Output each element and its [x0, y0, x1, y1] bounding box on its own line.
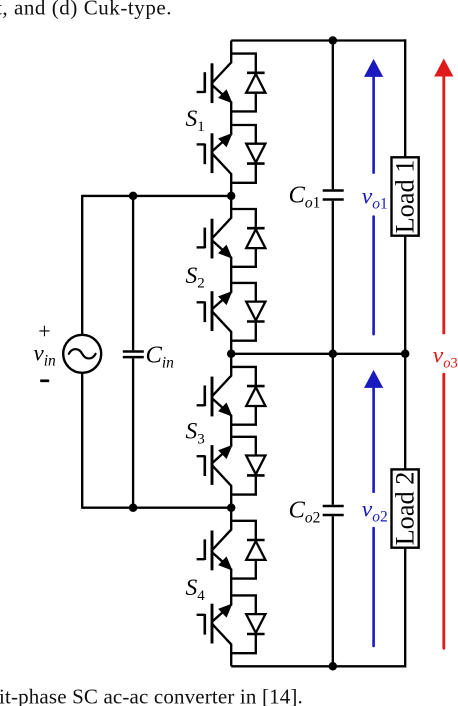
transistor S4 upper IGBT: [197, 508, 232, 571]
wire load2 top lead: [404, 354, 406, 470]
arrow vo2 shaft lower: [372, 528, 375, 646]
wire Cin top lead: [132, 196, 134, 350]
junction node 4: [227, 350, 236, 359]
wire S2 mid link: [230, 257, 232, 293]
ac source vin circle: [63, 335, 101, 373]
svg-text:vo3: vo3: [433, 343, 458, 372]
wire load2 bottom lead: [404, 548, 406, 668]
wire Co1 top lead: [332, 41, 334, 190]
transistor S2 upper IGBT: [197, 196, 232, 259]
arrow vo3 head: [434, 59, 453, 77]
junction node 8: [227, 503, 236, 512]
load 2 box: [392, 469, 419, 547]
wire S3 mid link: [230, 415, 232, 447]
wire Co1 bottom lead: [332, 201, 334, 354]
transistor S1 lower IGBT: [197, 133, 232, 196]
capacitor Co1 plates: [323, 191, 344, 200]
capacitor Cin plates: [123, 352, 144, 358]
diode S3 upper anti-parallel: [230, 367, 265, 425]
arrow vo3 shaft upper: [442, 77, 445, 335]
svg-text:S1: S1: [186, 106, 205, 135]
junction node 7: [129, 503, 138, 512]
wire middle rail: [231, 353, 405, 355]
junction node 5: [329, 350, 338, 359]
svg-text:S2: S2: [186, 263, 205, 292]
wire load1 top lead: [404, 39, 406, 157]
wire bottom rail: [231, 665, 405, 667]
wire left upper horizontal: [82, 195, 231, 197]
svg-text:vin: vin: [34, 341, 57, 370]
svg-text:t, and (d) Cuk-type.: t, and (d) Cuk-type.: [0, 0, 172, 20]
diode S2 lower anti-parallel: [230, 283, 265, 341]
arrow vo3 shaft lower: [442, 374, 445, 648]
junction node 3: [329, 36, 338, 45]
arrow vo2 shaft upper: [372, 388, 375, 493]
transistor S3 lower IGBT: [197, 445, 232, 508]
wire source top lead: [81, 195, 83, 335]
wire Co2 top lead: [332, 354, 334, 505]
diode S4 lower anti-parallel: [230, 595, 265, 653]
transistor S1 upper IGBT: [197, 41, 232, 104]
svg-text:it-phase SC ac-ac converter in: it-phase SC ac-ac converter in [14].: [0, 685, 303, 706]
arrow vo1 head: [364, 59, 383, 77]
svg-text:Cin: Cin: [146, 342, 175, 372]
wire Cin bottom lead: [132, 358, 134, 507]
wire top rail: [231, 39, 405, 41]
ac source sine wave: [69, 349, 96, 358]
junction node 1: [129, 192, 138, 201]
svg-text:Load 2: Load 2: [391, 472, 420, 546]
arrow vo1 shaft lower: [372, 217, 375, 335]
junction node 6: [401, 350, 410, 359]
diode S1 lower anti-parallel: [230, 125, 265, 183]
svg-text:vo1: vo1: [362, 184, 388, 213]
transistor S2 lower IGBT: [197, 291, 232, 354]
arrow vo2 head: [364, 370, 383, 388]
diode S4 upper anti-parallel: [230, 521, 265, 579]
transistor S4 lower IGBT: [197, 604, 232, 667]
wire load1 bottom lead: [404, 236, 406, 354]
wire S1 mid link: [230, 102, 232, 135]
svg-text:Co1: Co1: [289, 182, 321, 212]
label minus: [40, 379, 49, 382]
load 1 box: [392, 157, 419, 235]
diode S1 upper anti-parallel: [230, 54, 265, 112]
svg-text:Co2: Co2: [289, 497, 321, 527]
wire Co2 bottom lead: [332, 516, 334, 666]
arrow vo1 shaft upper: [372, 77, 375, 174]
svg-text:Load 1: Load 1: [391, 160, 420, 234]
junction node 2: [227, 192, 236, 201]
transistor S3 upper IGBT: [197, 354, 232, 417]
junction node 9: [329, 662, 338, 671]
diode S2 upper anti-parallel: [230, 209, 265, 267]
svg-text:S3: S3: [186, 419, 205, 448]
wire source bottom lead: [81, 373, 83, 509]
wire S4 mid link: [230, 569, 232, 606]
wire left lower horizontal: [82, 507, 231, 509]
diode S3 lower anti-parallel: [230, 437, 265, 495]
svg-text:vo2: vo2: [362, 497, 388, 526]
capacitor Co2 plates: [323, 506, 344, 515]
svg-text:S4: S4: [186, 575, 206, 604]
